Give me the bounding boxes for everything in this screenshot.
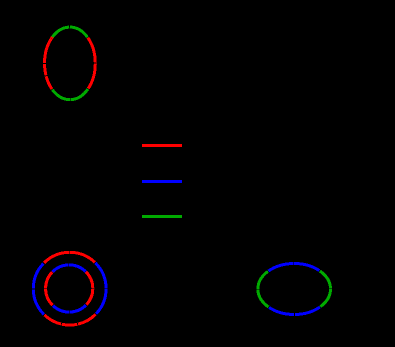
inner circle bottom arc (blue) bbox=[53, 305, 86, 312]
blue line bbox=[142, 180, 182, 183]
outer circle bottom arc (red) bbox=[44, 314, 95, 325]
inner circle right arc (red) bbox=[86, 272, 93, 305]
ellipse E2 top arc (blue) bbox=[269, 263, 320, 270]
ellipse E1 left arc (red) bbox=[44, 38, 51, 89]
ellipse E2 bottom arc (blue) bbox=[269, 307, 320, 314]
outer circle right arc (blue) bbox=[95, 263, 106, 314]
ellipse E1 bottom arc (green) bbox=[52, 89, 88, 100]
inner circle top arc (blue) bbox=[53, 265, 86, 272]
inner circle left arc (red) bbox=[46, 272, 53, 305]
ellipse E2 right arc (green) bbox=[320, 271, 331, 307]
outer circle top arc (red) bbox=[44, 252, 95, 263]
outer circle left arc (blue) bbox=[33, 263, 44, 314]
ellipse E2 left arc (green) bbox=[258, 271, 269, 307]
ellipse E1 top arc (green) bbox=[52, 27, 88, 38]
red line bbox=[142, 144, 182, 147]
ellipse E1 right arc (red) bbox=[88, 38, 95, 89]
green line bbox=[142, 215, 182, 218]
